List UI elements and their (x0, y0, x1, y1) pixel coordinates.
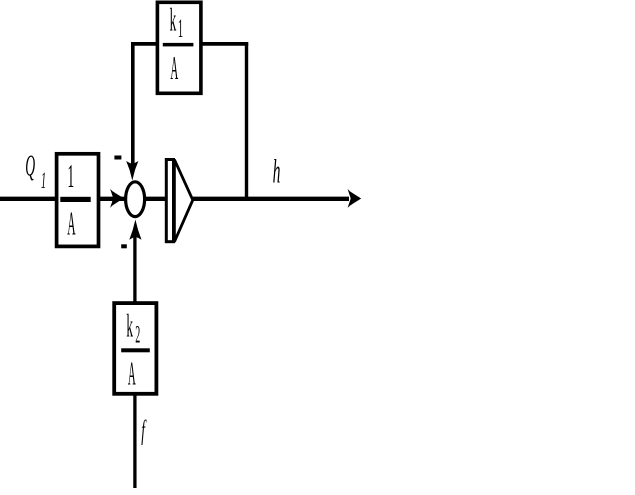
fraction bar in k2/A (121, 348, 150, 352)
svg-text:2: 2 (135, 322, 140, 350)
svg-text:A: A (67, 205, 76, 242)
svg-text:1: 1 (178, 15, 183, 44)
arrowhead: output arrow tip (348, 189, 362, 208)
integrator: triangle (174, 160, 192, 242)
block 1/A (input gain) (57, 154, 99, 247)
svg-text:k: k (170, 3, 177, 38)
summing junction (ellipse) (126, 182, 145, 217)
wire: feedback left vertical (down to summer) (131, 42, 135, 168)
arrowhead: into summer from top (126, 161, 138, 181)
arrowhead: into summer from left (110, 189, 124, 208)
svg-text:Q: Q (25, 150, 35, 184)
integrator: input bar (166, 160, 173, 242)
label: minus sign above summer (114, 156, 121, 160)
fraction bar in k1/A (163, 43, 194, 47)
arrowhead: into summer from bottom (129, 220, 141, 240)
fraction bar in 1/A (60, 197, 90, 202)
block k1/A (top feedback gain) (157, 2, 201, 93)
wire: bottom vertical (f input up to summer) (133, 233, 136, 488)
block k2/A (bottom gain) (114, 303, 156, 394)
svg-text:A: A (128, 356, 136, 392)
svg-text:A: A (170, 51, 178, 87)
svg-text:h: h (273, 151, 281, 190)
wire: feedback top horizontal (131, 42, 248, 46)
svg-text:1: 1 (41, 167, 46, 193)
svg-text:k: k (126, 309, 133, 344)
label: minus sign below summer (121, 244, 127, 248)
wire: feedback right vertical (from output line up) (245, 42, 248, 200)
svg-text:1: 1 (67, 157, 74, 195)
wire: main input/output signal line (0, 197, 349, 201)
